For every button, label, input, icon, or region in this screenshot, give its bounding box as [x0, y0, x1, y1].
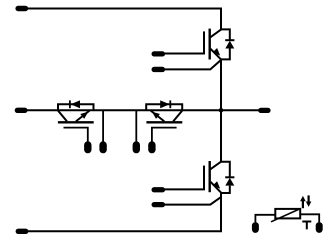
diode D4 cathode bar [169, 100, 171, 108]
terminal T1 auxiliary emitter pad [152, 67, 166, 72]
terminal T2 gate pad [152, 187, 166, 192]
transistor T2 body bar [208, 161, 210, 192]
transistor T2 emitter arrow [213, 181, 221, 189]
wire T1 auxiliary emitter lead [164, 60, 221, 69]
wire kelvin emitter stem 2 [135, 110, 137, 141]
terminal DC+ (top left pad) [15, 6, 28, 11]
wire phase vertical (T1 emitter to T2 collector) [220, 59, 222, 162]
resistor R1 thermistor body [275, 209, 300, 219]
diode D1 triangle [225, 41, 234, 49]
transistor T4 emitter diagonal [151, 111, 165, 122]
terminal DC- pad [16, 229, 29, 234]
diode D3 triangle [71, 100, 81, 108]
wire T2 gate lead [164, 188, 205, 190]
transistor T1 body bar [208, 29, 210, 60]
transistor T1 emitter arrow [213, 48, 221, 56]
transistor T4 emitter arrow [152, 112, 160, 119]
transistor T1 gate bar [203, 31, 205, 53]
node phase junction dot [219, 108, 224, 113]
transistor T3 collector diagonal [58, 111, 67, 122]
terminal T3 gate pad [84, 141, 91, 153]
wire T1 gate lead [164, 53, 205, 55]
diode D1 branch bottom wire [220, 49, 230, 60]
temperature down arrow head [306, 202, 312, 207]
terminal R1 right pad [316, 222, 323, 233]
diode D2 branch bottom wire [220, 186, 230, 193]
transistor T3 emitter diagonal [76, 111, 90, 122]
resistor R1 thermistor diagonal stroke [271, 209, 301, 222]
terminal T1 gate pad [152, 51, 166, 56]
transistor T2 emitter diagonal [211, 182, 222, 193]
terminal AC left pad [15, 108, 28, 113]
transistor T4 collector diagonal [173, 111, 182, 122]
diode D4 loop wire (device 2 anti-parallel diode branch) [146, 104, 182, 110]
transistor T3 emitter arrow [80, 112, 88, 119]
terminal AC right pad [258, 108, 270, 113]
transistor T3 gate bar and lead [64, 128, 88, 142]
terminal T4 gate pad [148, 141, 155, 153]
wire DC+ rail to top IGBT collector [27, 9, 221, 31]
transistor T1 emitter diagonal [211, 49, 222, 60]
diode D2 branch top wire [220, 162, 230, 178]
transistor T4 gate bar and lead [152, 128, 177, 142]
wire R1 right lead [300, 214, 319, 222]
terminal kelvin emitter pad 1 [99, 141, 106, 153]
temperature up arrow shaft [302, 200, 304, 209]
temperature up arrow head [300, 196, 306, 201]
transistor T2 collector diagonal [210, 162, 221, 170]
terminal T2 auxiliary emitter pad [152, 202, 166, 207]
label T (temperature) [302, 221, 311, 230]
op: top IGBT T1 collector diagonal [210, 30, 221, 38]
diode D2 cathode bar [225, 176, 234, 178]
wire R1 left lead [255, 215, 275, 223]
wire DC- rail (T2 emitter to DC- terminal) [28, 192, 221, 231]
diode D3 cathode bar [69, 100, 71, 108]
wire T2 auxiliary emitter lead [164, 197, 221, 204]
diode D2 triangle [225, 178, 234, 186]
wire kelvin emitter stem 1 [102, 110, 104, 141]
transistor T2 gate bar [203, 166, 205, 190]
wire AC bus (mid horizontal) [27, 109, 259, 111]
diode D4 triangle [160, 100, 170, 108]
temperature down arrow shaft [308, 195, 310, 202]
diode D1 cathode bar [225, 39, 234, 41]
diode D3 loop wire (device 1 anti-parallel diode branch) [58, 104, 94, 110]
transistor T3 body bar [58, 121, 94, 123]
diode D1 branch top wire [220, 29, 230, 40]
transistor T4 body bar [146, 121, 182, 123]
terminal R1 left pad [252, 222, 259, 233]
terminal kelvin emitter pad 2 [133, 141, 140, 153]
